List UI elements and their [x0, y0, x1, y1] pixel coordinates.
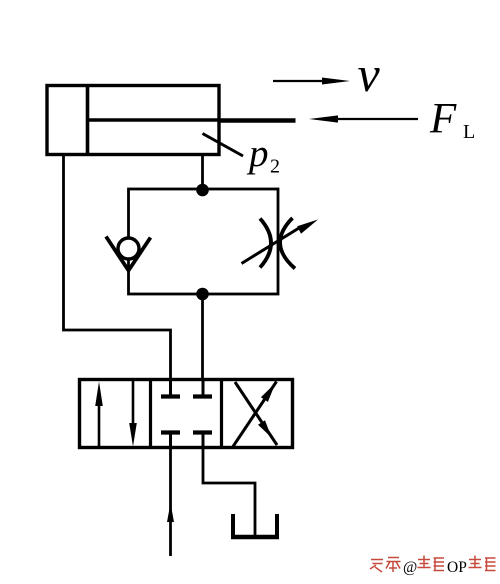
bridge loop rectangle (check valve / throttle parallel circuit)	[129, 189, 279, 294]
svg-text:OP: OP	[447, 559, 467, 576]
left position: flow path down arrow	[129, 381, 137, 447]
piston rod extension outside barrel	[219, 118, 296, 123]
svg-text:L: L	[463, 121, 475, 143]
svg-text:F: F	[429, 96, 457, 143]
velocity arrow v	[273, 78, 350, 85]
load force arrow FL	[309, 115, 418, 122]
directional valve U1 body	[80, 380, 293, 448]
cylinder piston rod	[88, 118, 220, 122]
label p2	[246, 132, 280, 178]
svg-text:@: @	[403, 559, 417, 576]
valve envelope divider left	[149, 379, 152, 448]
right position: crossed path down-right arrow	[235, 382, 277, 445]
center position: blocked port stub top-right	[193, 379, 212, 397]
svg-text:p: p	[246, 132, 269, 175]
center position: blocked port stub bottom-left	[161, 433, 180, 449]
throttle valve adjustment arrow	[242, 220, 319, 264]
svg-text:2: 2	[270, 156, 280, 178]
wire from bottom node to directional valve port B	[201, 294, 204, 380]
wire from cylinder left port down and over to valve port A	[64, 153, 171, 380]
center position: blocked port stub top-left	[161, 379, 180, 397]
valve envelope divider right	[220, 379, 223, 448]
tank symbol	[231, 514, 279, 537]
check valve V1 (ball)	[118, 238, 139, 259]
wire from cylinder right port to top node	[201, 153, 204, 190]
leader line to p2	[203, 134, 244, 157]
node (bottom junction dot)	[196, 288, 209, 301]
label F_L	[429, 96, 475, 144]
check valve V1 (seat)	[106, 237, 151, 271]
tank return wire	[203, 448, 255, 535]
throttle valve right arc	[280, 218, 295, 269]
svg-text:v: v	[358, 46, 381, 102]
center position: blocked port stub bottom-right	[193, 433, 212, 449]
cylinder barrel (outer rectangle)	[47, 86, 219, 155]
right position: crossed path up-right arrow	[233, 382, 277, 447]
watermark 头条@生活OP生活	[370, 556, 496, 577]
cylinder piston	[86, 84, 90, 156]
pump supply line with upward flow arrow	[167, 448, 174, 556]
left position: flow path up arrow	[95, 382, 103, 447]
node (top junction dot)	[196, 184, 209, 197]
throttle valve left arc	[260, 219, 271, 268]
